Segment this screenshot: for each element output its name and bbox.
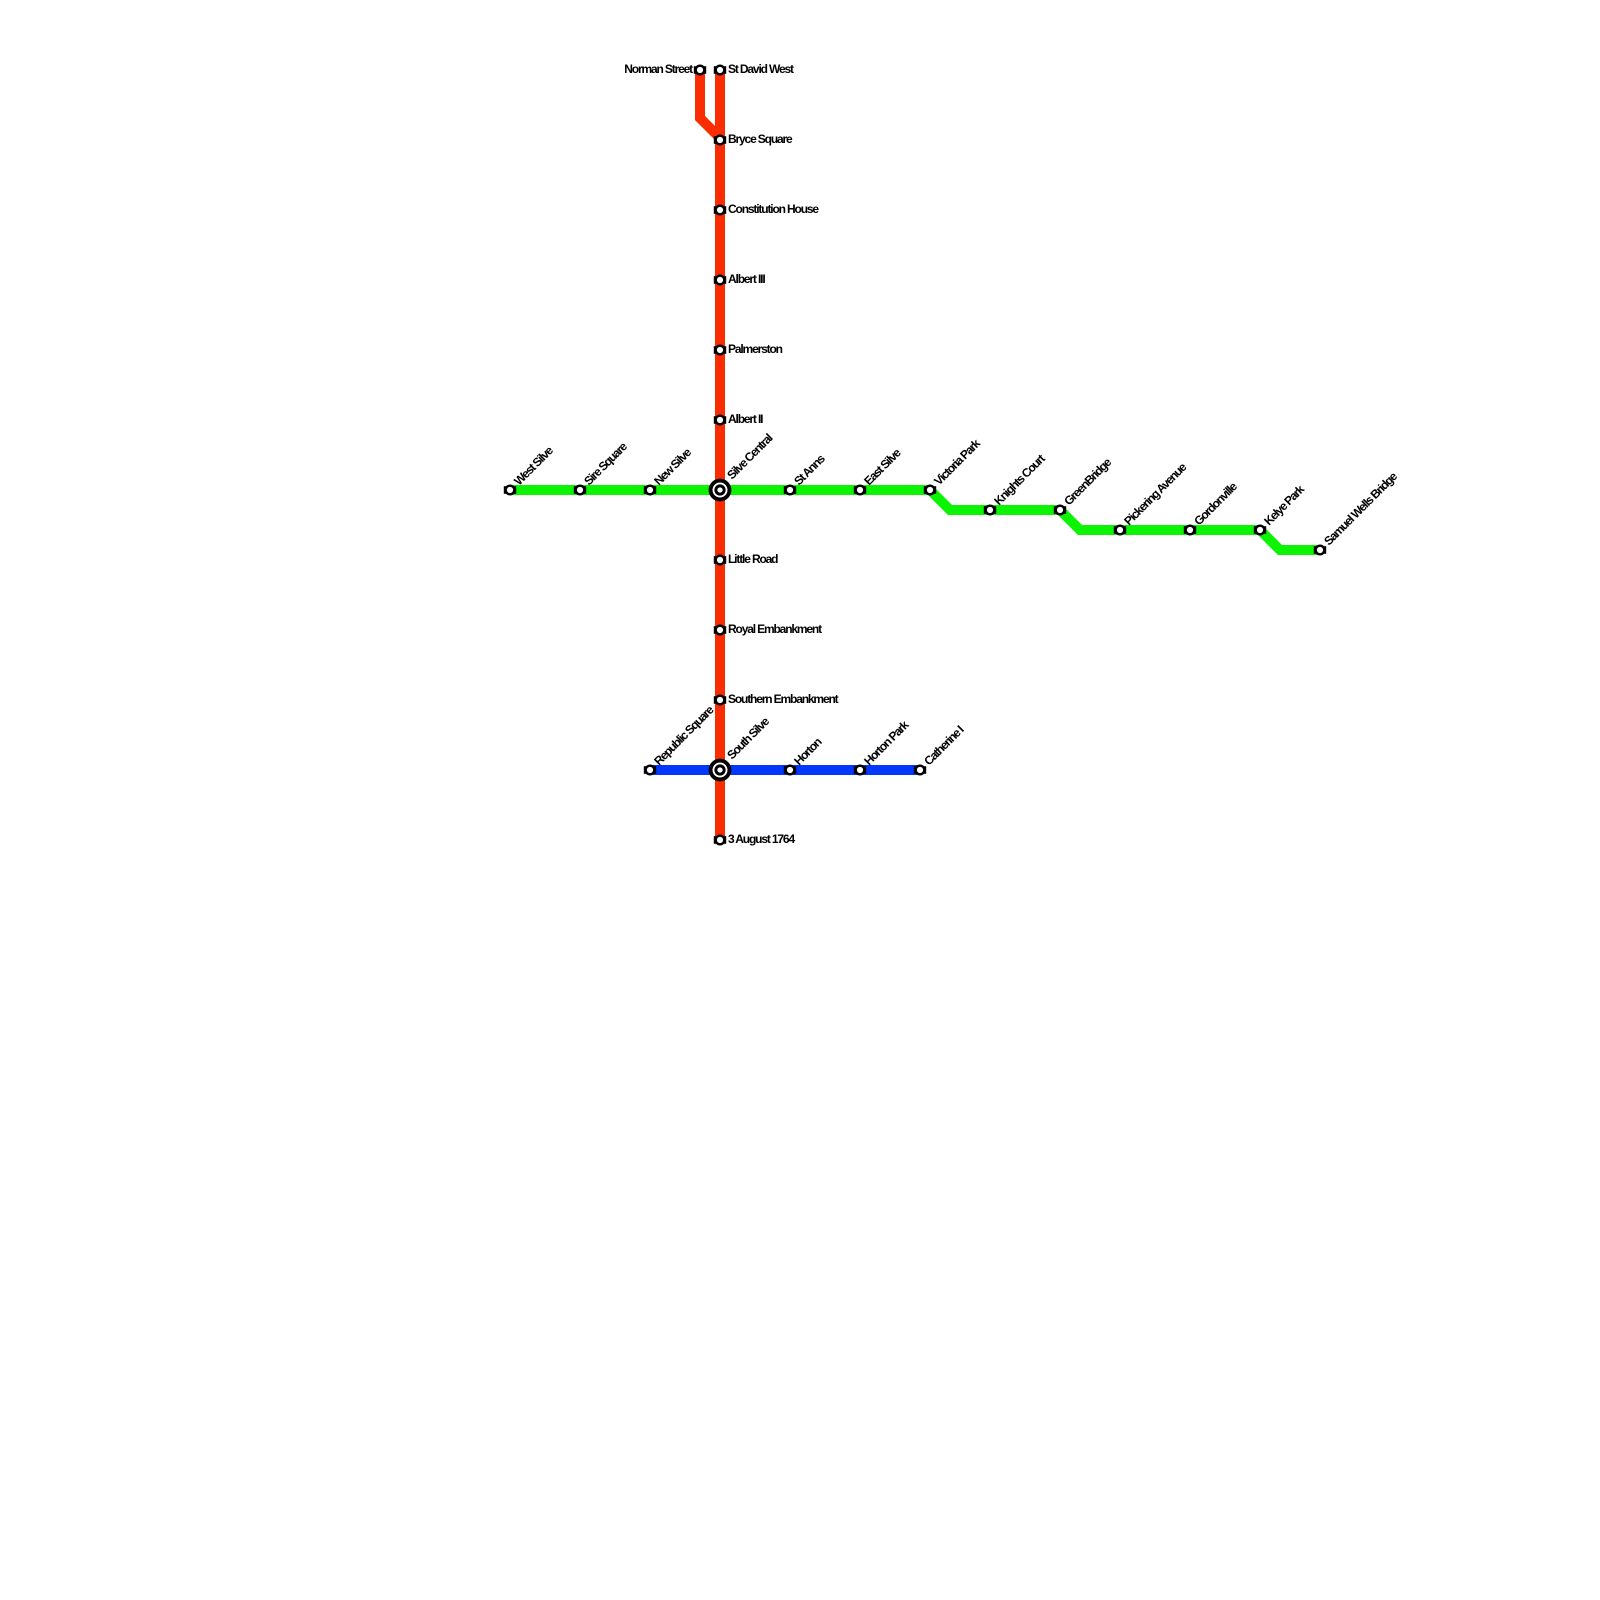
station Norman Street [694,65,706,76]
station Horton Park [854,765,866,776]
red line main (St David West to 3 August 1764) [715,70,725,840]
station Catherine I [914,765,926,776]
svg-text:St David West: St David West [728,62,794,76]
green line (West Silve to Samuel Wells Bridge) [510,490,1320,550]
station Palmerston [714,345,726,356]
station Little Road [714,555,726,566]
svg-text:Little Road: Little Road [728,552,778,566]
station Kelye Park [1254,525,1266,536]
station Albert II [714,415,726,426]
station Sire Square [574,485,586,496]
svg-text:3 August 1764: 3 August 1764 [728,832,795,846]
svg-text:Bryce Square: Bryce Square [728,132,793,146]
interchange station South Silve [709,759,732,782]
station Knights Court [984,505,996,516]
station Royal Embankment [714,625,726,636]
station Horton [784,765,796,776]
svg-text:Albert II: Albert II [728,412,763,426]
station Constitution House [714,205,726,216]
station Pickering Avenue [1114,525,1126,536]
svg-text:Royal Embankment: Royal Embankment [728,622,822,636]
station East Silve [854,485,866,496]
interchange station Silve Central [709,479,732,502]
blue line (Republic Square to Catherine I) [650,765,920,775]
station Gordonville [1184,525,1196,536]
svg-text:Constitution House: Constitution House [728,202,819,216]
station Southern Embankment [714,695,726,706]
station Bryce Square [714,135,726,146]
station Victoria Park [924,485,936,496]
svg-text:Albert III: Albert III [728,272,765,286]
svg-text:Southern Embankment: Southern Embankment [728,692,839,706]
svg-text:Norman Street: Norman Street [624,62,693,76]
station Albert III [714,275,726,286]
svg-text:Palmerston: Palmerston [728,342,783,356]
red line branch (Norman Street spur) [700,70,720,138]
station West Silve [504,485,516,496]
station GreenBridge [1054,505,1066,516]
station 3 August 1764 [714,835,726,846]
station Samuel Wells Bridge [1314,545,1326,556]
station New Silve [644,485,656,496]
station St David West [714,65,726,76]
station St Anns [784,485,796,496]
station Republic Square [644,765,656,776]
